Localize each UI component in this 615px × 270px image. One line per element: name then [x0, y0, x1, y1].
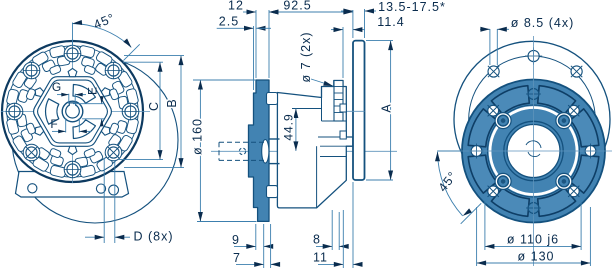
centerline middle view	[211, 150, 397, 152]
dimension G	[68, 94, 70, 104]
dimension D (8x)	[103, 158, 105, 243]
engine mounting bracket	[16, 172, 129, 198]
center detail marks	[526, 141, 541, 148]
svg-text:7: 7	[233, 251, 241, 265]
middle ring of slots	[57, 55, 70, 66]
svg-text:11: 11	[313, 251, 328, 265]
inner ring of slots	[49, 65, 61, 75]
dimension 7	[270, 224, 272, 268]
dimension dia 8.5 (4x)	[489, 29, 491, 65]
dimension dia 160	[193, 79, 256, 81]
svg-text:B: B	[165, 98, 179, 107]
hub and bore with keyway	[62, 101, 83, 122]
svg-text:ø 160: ø 160	[191, 118, 205, 155]
dimension 9	[255, 224, 257, 250]
centerlines left view	[1, 111, 150, 113]
dimension E	[73, 103, 104, 105]
svg-text:45°: 45°	[92, 11, 118, 32]
svg-text:ø 7 (2x): ø 7 (2x)	[299, 31, 313, 82]
left view: coupling front flange	[1, 41, 178, 223]
svg-text:13.5-17.5*: 13.5-17.5*	[378, 0, 446, 14]
rubber element tabs	[267, 93, 278, 105]
body internal lines	[292, 108, 322, 110]
dimension A	[366, 40, 393, 42]
pentagon holes	[101, 88, 110, 97]
screw bosses on disc face	[340, 104, 346, 112]
svg-text:F: F	[50, 117, 58, 131]
sectioned flange plate (blue)	[249, 80, 270, 221]
stud stack (2x M7)	[334, 81, 343, 122]
svg-text:44.9: 44.9	[282, 113, 296, 140]
socket screws 4x	[556, 113, 572, 129]
svg-text:9: 9	[232, 233, 240, 247]
dimension F	[65, 118, 67, 133]
svg-text:A: A	[380, 103, 394, 112]
svg-text:12: 12	[228, 0, 244, 13]
dimension 92.5	[352, 10, 354, 38]
dimension 45 deg (left view)	[72, 23, 74, 47]
centerlines right view	[437, 150, 612, 152]
svg-text:2.5: 2.5	[219, 15, 239, 29]
svg-text:ø 8.5 (4x): ø 8.5 (4x)	[511, 16, 575, 30]
dimension 11.4	[342, 27, 344, 78]
dimension 8	[331, 210, 333, 250]
dimension 45 deg (right view)	[438, 152, 463, 216]
dimension dia 110 j6	[484, 200, 486, 250]
dimension 12	[255, 10, 257, 78]
svg-text:92.5: 92.5	[283, 0, 311, 12]
leader dia 7 (2x)	[311, 79, 333, 86]
housing top hole	[528, 50, 539, 61]
dimension 11	[342, 210, 344, 268]
bolt holes 8x	[64, 45, 81, 62]
svg-text:G: G	[52, 80, 62, 94]
flange outer rim	[2, 41, 143, 182]
outer ring of slots	[49, 45, 66, 58]
svg-text:45°: 45°	[436, 169, 461, 195]
bore	[504, 121, 563, 180]
svg-text:D (8x): D (8x)	[133, 230, 173, 244]
svg-text:E: E	[86, 86, 100, 95]
dimension 44.9	[295, 109, 297, 151]
svg-text:C: C	[147, 101, 161, 111]
dimension 13.5-17.5*	[364, 9, 366, 38]
svg-text:8: 8	[313, 233, 321, 247]
flywheel housing circle (behind flange)	[12, 57, 178, 223]
mounting holes 8x on dia 130	[585, 146, 596, 157]
svg-text:ø 130: ø 130	[518, 249, 555, 263]
dimension 2.5	[253, 26, 255, 90]
flywheel disc	[353, 41, 365, 180]
housing circle behind	[454, 41, 610, 197]
kidney slots around hub	[73, 85, 95, 104]
dimension dia 130	[476, 207, 478, 266]
housing 8.5 holes (x marks)	[488, 66, 499, 77]
dimension C	[123, 61, 163, 63]
spigot white arc + edge	[488, 105, 580, 197]
hexagon element frame	[34, 77, 112, 147]
shaft end lens	[262, 140, 269, 164]
bolt circle arc	[469, 56, 596, 183]
slots 8x (outlined on blue)	[570, 109, 599, 147]
svg-text:11.4: 11.4	[377, 15, 404, 29]
bell housing / adapter body	[277, 81, 353, 208]
flange disc (filled)	[462, 80, 605, 223]
svg-text:ø 110 j6: ø 110 j6	[507, 233, 559, 247]
dimension B	[124, 55, 184, 57]
hidden shaft (dashed)	[219, 141, 265, 143]
